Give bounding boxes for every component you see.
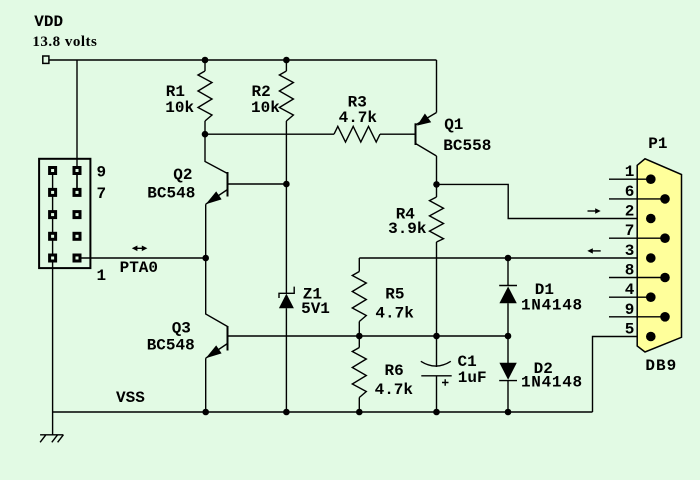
resistor R4 bbox=[436, 184, 438, 197]
svg-text:3: 3 bbox=[625, 242, 635, 260]
svg-text:5: 5 bbox=[625, 321, 635, 339]
svg-text:DB9: DB9 bbox=[645, 357, 677, 375]
arrow receive left bbox=[587, 248, 600, 253]
resistor R2 bbox=[285, 60, 287, 71]
node VSS-D2 bbox=[505, 409, 512, 416]
node VSS-Q3 bbox=[202, 409, 209, 416]
terminal VDD pad bbox=[43, 56, 49, 63]
svg-text:4: 4 bbox=[625, 281, 635, 299]
wire R1 junction to R3 bbox=[205, 133, 334, 135]
svg-text:9: 9 bbox=[625, 301, 635, 319]
node C1 top bbox=[433, 333, 440, 340]
transistor Q3 bbox=[206, 258, 228, 412]
svg-text:4.7k: 4.7k bbox=[339, 109, 378, 127]
arrow bidirectional PTA0 bbox=[132, 246, 148, 252]
svg-text:4.7k: 4.7k bbox=[375, 305, 414, 323]
diode D2 bbox=[499, 336, 517, 412]
wire header right column pins 9-7 bbox=[76, 171, 78, 193]
node rail-R2 bbox=[283, 57, 290, 64]
diode D1 bbox=[499, 258, 517, 336]
svg-text:8: 8 bbox=[625, 262, 635, 280]
resistor R5 bbox=[358, 258, 360, 272]
svg-text:13.8 volts: 13.8 volts bbox=[32, 34, 97, 50]
wire VSS rail bbox=[53, 411, 593, 413]
resistor R3 bbox=[334, 126, 380, 142]
wire Q3 base net to R5/R6 and C1 and D1/D2 bbox=[228, 335, 509, 337]
svg-text:1: 1 bbox=[97, 267, 107, 285]
wire R3 to Q1 base bbox=[380, 133, 415, 135]
capacitor C1 bbox=[421, 336, 452, 412]
DB9 pin stubs and pads bbox=[609, 174, 670, 341]
resistor R6 bbox=[358, 336, 360, 348]
node VSS-C1 bbox=[433, 409, 440, 416]
svg-text:5V1: 5V1 bbox=[301, 300, 330, 318]
node D1 anode / receive line bbox=[505, 255, 512, 262]
svg-text:10k: 10k bbox=[165, 99, 194, 117]
svg-text:P1: P1 bbox=[648, 135, 667, 153]
node R1-R3 junction bbox=[202, 131, 209, 138]
node Q2 base / R2 / Z1 bbox=[283, 181, 290, 188]
svg-text:1: 1 bbox=[625, 163, 635, 181]
svg-text:1N4148: 1N4148 bbox=[521, 374, 583, 392]
node D1/D2 junction bbox=[505, 333, 512, 340]
svg-text:BC558: BC558 bbox=[443, 137, 491, 155]
wire receive line R5 to DB9 pin 3 bbox=[359, 257, 651, 259]
ground symbol bbox=[40, 435, 63, 443]
svg-text:10k: 10k bbox=[251, 99, 280, 117]
svg-text:R6: R6 bbox=[385, 362, 404, 380]
connector P1 DB9 body bbox=[637, 159, 681, 352]
wire header ground column bbox=[52, 171, 54, 435]
node VSS-R6 bbox=[356, 409, 363, 416]
svg-text:7: 7 bbox=[625, 222, 635, 240]
svg-text:1N4148: 1N4148 bbox=[521, 296, 583, 314]
connector J1 header box bbox=[39, 159, 90, 268]
transistor Q1 bbox=[416, 60, 437, 184]
svg-text:Q3: Q3 bbox=[172, 320, 191, 338]
svg-text:BC548: BC548 bbox=[147, 336, 195, 354]
wire VDD rail bbox=[49, 59, 437, 61]
svg-text:2: 2 bbox=[625, 203, 635, 221]
svg-text:Q1: Q1 bbox=[444, 116, 463, 134]
svg-text:Q2: Q2 bbox=[173, 166, 192, 184]
wire PTA0 from header pin 1 bbox=[77, 257, 206, 259]
wire VDD drop to header pin 9 bbox=[76, 60, 78, 192]
wire Q1 collector to DB9 pin 2 bbox=[437, 184, 651, 218]
svg-text:PTA0: PTA0 bbox=[120, 259, 158, 277]
transistor Q2 bbox=[205, 134, 286, 258]
svg-text:VSS: VSS bbox=[116, 389, 145, 407]
zener diode Z1 bbox=[279, 184, 294, 412]
wire VSS to DB9 pin 5 bbox=[593, 337, 651, 413]
svg-text:1uF: 1uF bbox=[458, 369, 487, 387]
node rail-R1 bbox=[202, 57, 209, 64]
svg-text:BC548: BC548 bbox=[147, 184, 195, 202]
svg-text:6: 6 bbox=[625, 183, 635, 201]
svg-text:7: 7 bbox=[97, 185, 107, 203]
resistor R1 bbox=[204, 60, 206, 71]
svg-text:3.9k: 3.9k bbox=[388, 220, 427, 238]
svg-text:R5: R5 bbox=[385, 286, 404, 304]
arrow transmit right bbox=[588, 208, 601, 213]
svg-text:9: 9 bbox=[97, 164, 107, 182]
header pins bbox=[48, 166, 81, 263]
svg-text:4.7k: 4.7k bbox=[375, 381, 414, 399]
node Q2 emitter / Q3 collector / PTA0 bbox=[202, 255, 209, 262]
node R5/R6/Q3 base bbox=[356, 333, 363, 340]
node VSS-Z1 bbox=[283, 409, 290, 416]
node Q1 collector / R4 / serial out bbox=[433, 181, 440, 188]
svg-text:VDD: VDD bbox=[34, 13, 63, 31]
